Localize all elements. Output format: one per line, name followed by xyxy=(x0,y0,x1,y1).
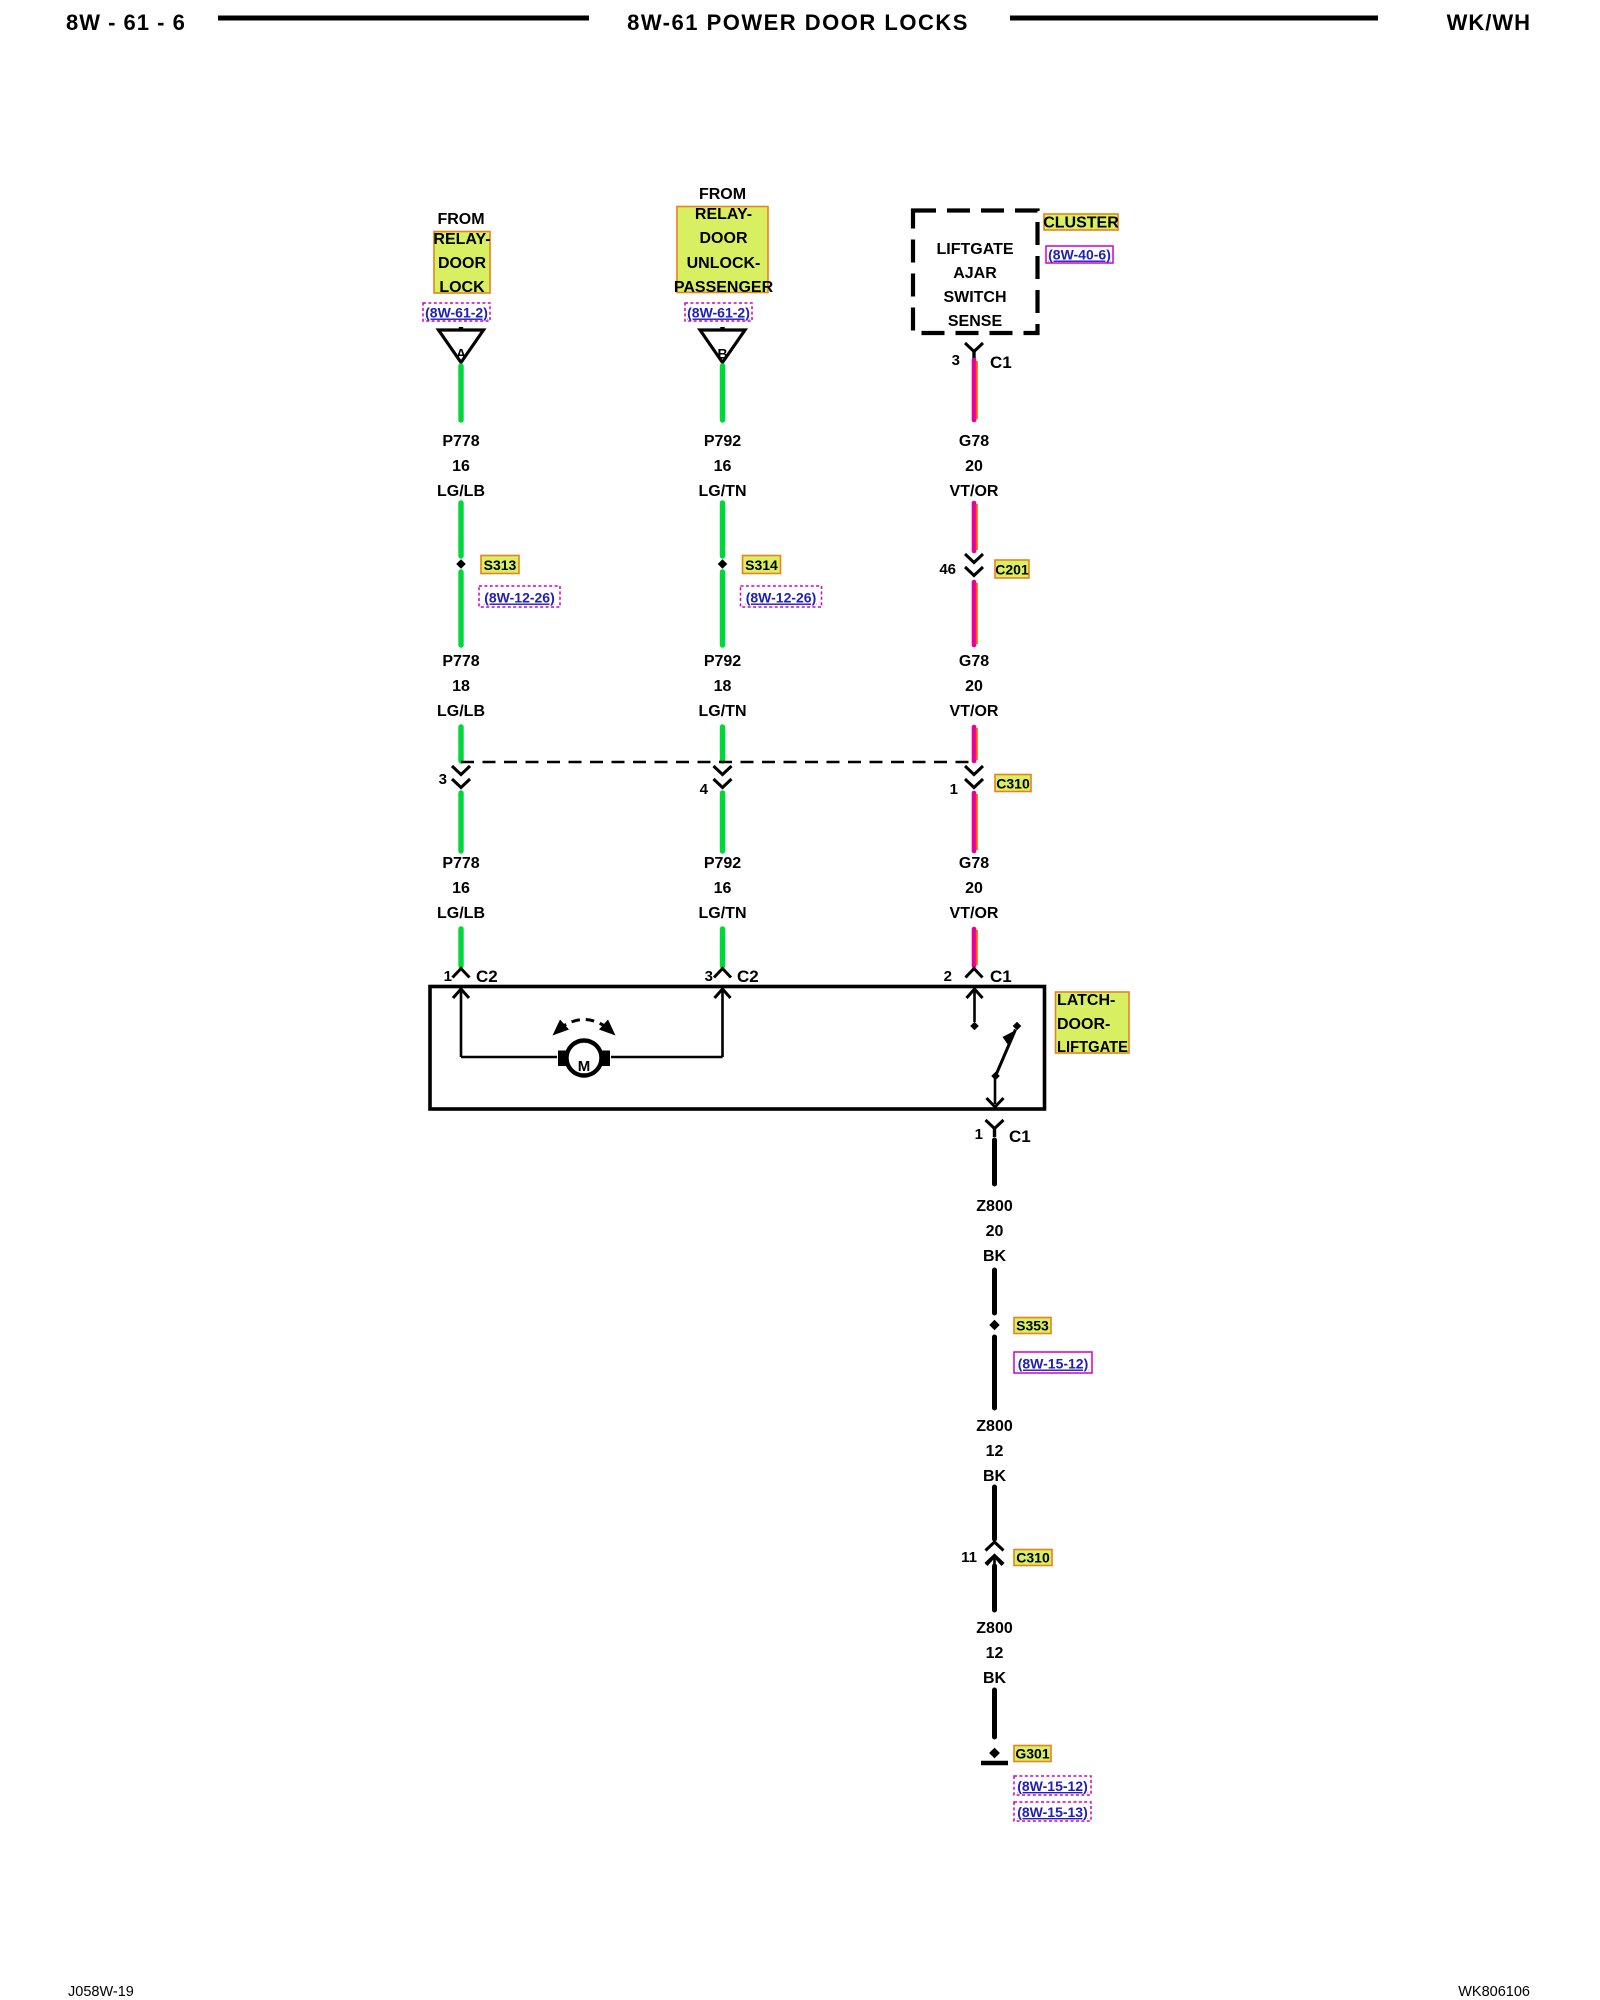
wire Z800 segment 6 (BK) xyxy=(992,1690,997,1737)
wire P778 segment 6 (LG) xyxy=(458,929,463,966)
wire G78 segment 5 (VT/OR) xyxy=(972,793,977,851)
svg-text:G78: G78 xyxy=(959,653,989,670)
svg-text:1: 1 xyxy=(444,968,452,985)
svg-text:C1: C1 xyxy=(990,353,1012,372)
svg-text:18: 18 xyxy=(452,678,470,695)
svg-text:18: 18 xyxy=(714,678,732,695)
wire P792 segment 5 (LG) xyxy=(720,793,725,851)
page link (8W-61-2) col2 xyxy=(685,303,752,321)
svg-text:SWITCH: SWITCH xyxy=(943,289,1006,306)
header rule left xyxy=(218,16,589,21)
svg-text:WK806106: WK806106 xyxy=(1458,1984,1530,2000)
svg-text:DOOR: DOOR xyxy=(700,230,748,247)
ground G301 xyxy=(989,1748,1000,1759)
connector pin 2 C1 (latch) xyxy=(966,969,983,978)
svg-text:C310: C310 xyxy=(1016,1550,1050,1566)
svg-text:46: 46 xyxy=(939,561,956,578)
wire P778 segment 3 (LG) xyxy=(458,572,463,645)
svg-text:S353: S353 xyxy=(1016,1318,1049,1334)
svg-text:LATCH-: LATCH- xyxy=(1057,992,1115,1009)
svg-text:DOOR: DOOR xyxy=(438,255,486,272)
connector pin 3 C2 (latch) xyxy=(714,969,731,978)
svg-text:RELAY-: RELAY- xyxy=(433,231,490,248)
svg-text:G78: G78 xyxy=(959,433,989,450)
svg-text:LIFTGATE: LIFTGATE xyxy=(1057,1039,1128,1056)
svg-text:LG/TN: LG/TN xyxy=(699,483,747,500)
page link (8W-12-26) col1 xyxy=(479,586,560,607)
wire P778 segment 1 (LG) xyxy=(458,366,463,420)
wire P792 segment 3 (LG) xyxy=(720,572,725,645)
in-line connector C201 pin 46 xyxy=(965,554,983,563)
svg-text:Z800: Z800 xyxy=(976,1620,1013,1637)
switch contact upper-right xyxy=(1013,1022,1022,1031)
wire Z800 segment 1 (BK) xyxy=(992,1140,997,1184)
svg-text:1: 1 xyxy=(975,1126,983,1143)
svg-text:LIFTGATE: LIFTGATE xyxy=(936,241,1013,258)
wire P778 segment 5 (LG) xyxy=(458,793,463,851)
svg-text:WK/WH: WK/WH xyxy=(1447,10,1531,35)
svg-text:G78: G78 xyxy=(959,855,989,872)
header rule right xyxy=(1010,16,1378,21)
wire Z800 segment 3 (BK) xyxy=(992,1337,997,1408)
wire G78 segment 3 (VT/OR) xyxy=(972,582,977,645)
internal lead switch to pin1 C1 xyxy=(994,1076,997,1104)
svg-text:LG/TN: LG/TN xyxy=(699,905,747,922)
svg-text:(8W-15-12): (8W-15-12) xyxy=(1018,1356,1089,1372)
svg-text:12: 12 xyxy=(986,1645,1004,1662)
svg-text:16: 16 xyxy=(452,458,470,475)
svg-text:S314: S314 xyxy=(745,557,778,573)
svg-text:16: 16 xyxy=(714,880,732,897)
svg-text:16: 16 xyxy=(452,880,470,897)
switch contact upper-left xyxy=(970,1022,979,1031)
switch pivot contact xyxy=(991,1072,1000,1081)
splice S353 xyxy=(989,1320,999,1330)
svg-text:(8W-15-13): (8W-15-13) xyxy=(1017,1804,1088,1820)
connector pin 1 C2 (latch) xyxy=(453,969,470,978)
svg-text:(8W-61-2): (8W-61-2) xyxy=(687,305,750,321)
svg-text:LG/TN: LG/TN xyxy=(699,703,747,720)
svg-text:8W - 61 - 6: 8W - 61 - 6 xyxy=(66,10,186,35)
wire G78 segment 2 (VT/OR) xyxy=(972,503,977,551)
wire G78 segment 4 (VT/OR) xyxy=(972,727,977,761)
svg-text:BK: BK xyxy=(983,1248,1007,1265)
splice S314 xyxy=(718,559,728,569)
svg-text:20: 20 xyxy=(965,458,983,475)
off-page connector triangle A xyxy=(459,327,463,331)
svg-text:20: 20 xyxy=(965,678,983,695)
svg-text:(8W-61-2): (8W-61-2) xyxy=(425,305,488,321)
svg-text:BK: BK xyxy=(983,1670,1007,1687)
svg-text:LOCK: LOCK xyxy=(439,279,485,296)
svg-text:VT/OR: VT/OR xyxy=(950,905,999,922)
ajar switch blade xyxy=(996,1030,1016,1077)
svg-text:(8W-40-6): (8W-40-6) xyxy=(1048,247,1111,263)
svg-text:(8W-12-26): (8W-12-26) xyxy=(484,590,555,606)
svg-text:AJAR: AJAR xyxy=(953,265,997,282)
svg-text:C201: C201 xyxy=(995,562,1029,578)
splice S313 xyxy=(456,559,466,569)
svg-text:A: A xyxy=(456,346,466,362)
svg-text:FROM: FROM xyxy=(699,186,746,203)
svg-text:1: 1 xyxy=(950,781,958,798)
svg-text:C1: C1 xyxy=(1009,1127,1031,1146)
svg-text:C2: C2 xyxy=(476,967,498,986)
svg-text:P792: P792 xyxy=(704,653,741,670)
svg-text:LG/LB: LG/LB xyxy=(437,483,485,500)
svg-text:FROM: FROM xyxy=(437,211,484,228)
svg-text:8W-61 POWER DOOR LOCKS: 8W-61 POWER DOOR LOCKS xyxy=(627,10,969,35)
motor rotation arrows xyxy=(559,1020,609,1030)
page link (8W-40-6) xyxy=(1046,246,1113,263)
svg-text:P778: P778 xyxy=(442,653,479,670)
wire P792 segment 1 (LG) xyxy=(720,366,725,420)
svg-text:UNLOCK-: UNLOCK- xyxy=(687,255,761,272)
svg-text:Z800: Z800 xyxy=(976,1418,1013,1435)
svg-text:3: 3 xyxy=(952,352,960,369)
page link (8W-61-2) col1 xyxy=(423,303,490,321)
page link (8W-15-13) at G301 xyxy=(1014,1802,1091,1821)
svg-text:C2: C2 xyxy=(737,967,759,986)
svg-text:LG/LB: LG/LB xyxy=(437,703,485,720)
svg-text:M: M xyxy=(578,1058,591,1075)
svg-text:RELAY-: RELAY- xyxy=(695,206,752,223)
wire Z800 segment 4 (BK) xyxy=(992,1487,997,1539)
C310 halves col1 pin 3 xyxy=(452,766,470,775)
svg-text:J058W-19: J058W-19 xyxy=(68,1984,134,2000)
svg-text:2: 2 xyxy=(944,968,952,985)
svg-text:C310: C310 xyxy=(996,776,1030,792)
svg-text:12: 12 xyxy=(986,1443,1004,1460)
svg-text:(8W-15-12): (8W-15-12) xyxy=(1017,1778,1088,1794)
svg-text:P778: P778 xyxy=(442,855,479,872)
wire P792 segment 6 (LG) xyxy=(720,929,725,966)
svg-text:3: 3 xyxy=(439,771,447,788)
internal lead pin3 to motor xyxy=(721,989,724,1057)
svg-text:P792: P792 xyxy=(704,855,741,872)
svg-text:20: 20 xyxy=(986,1223,1004,1240)
svg-text:4: 4 xyxy=(700,781,709,798)
svg-text:Z800: Z800 xyxy=(976,1198,1013,1215)
component box LATCH-DOOR-LIFTGATE xyxy=(430,987,1045,1110)
in-line connector C310 pin 11 (arrow up) xyxy=(986,1542,1004,1551)
svg-text:DOOR-: DOOR- xyxy=(1057,1016,1110,1033)
component name label CLUSTER xyxy=(1044,214,1118,230)
wire P778 segment 4 (LG) xyxy=(458,727,463,761)
in-line connector C310 (dashed gang line) xyxy=(461,761,974,764)
svg-text:16: 16 xyxy=(714,458,732,475)
svg-text:P778: P778 xyxy=(442,433,479,450)
svg-text:VT/OR: VT/OR xyxy=(950,703,999,720)
wire P778 segment 2 (LG) xyxy=(458,503,463,556)
wire G78 segment 6 (VT/OR) xyxy=(972,929,977,966)
connector fork pin 1 C1 (bottom) xyxy=(986,1120,1004,1129)
svg-text:C1: C1 xyxy=(990,967,1012,986)
svg-text:VT/OR: VT/OR xyxy=(950,483,999,500)
internal lead pin1 to motor xyxy=(460,989,463,1057)
component name label LATCH-DOOR-LIFTGATE xyxy=(1056,992,1130,1053)
wire P792 segment 4 (LG) xyxy=(720,727,725,761)
svg-text:S313: S313 xyxy=(484,557,517,573)
svg-text:LG/LB: LG/LB xyxy=(437,905,485,922)
connector name label C310 xyxy=(995,775,1031,792)
svg-text:CLUSTER: CLUSTER xyxy=(1043,215,1119,232)
svg-text:PASSENGER: PASSENGER xyxy=(674,279,774,296)
wire Z800 segment 5 (BK) xyxy=(992,1566,997,1610)
C310 halves col3 pin 1 xyxy=(965,766,983,775)
connector fork pin 3 C1 xyxy=(965,343,983,352)
off-page connector triangle B xyxy=(720,327,724,331)
page link (8W-12-26) col2 xyxy=(741,586,822,607)
wire P792 segment 2 (LG) xyxy=(720,503,725,556)
svg-text:BK: BK xyxy=(983,1468,1007,1485)
internal lead pin2 to switch contact xyxy=(973,989,976,1022)
motor M xyxy=(558,1051,568,1067)
svg-text:B: B xyxy=(717,346,727,362)
svg-text:P792: P792 xyxy=(704,433,741,450)
svg-text:SENSE: SENSE xyxy=(948,313,1003,330)
svg-text:3: 3 xyxy=(705,968,713,985)
internal wire motor loop xyxy=(461,1056,557,1059)
page link (8W-15-12) at G301 xyxy=(1014,1776,1091,1795)
svg-text:20: 20 xyxy=(965,880,983,897)
svg-text:11: 11 xyxy=(961,1549,977,1566)
svg-text:G301: G301 xyxy=(1015,1746,1049,1762)
page link (8W-15-12) at S353 xyxy=(1014,1352,1092,1373)
wire G78 segment 1 (VT/OR) xyxy=(972,360,977,420)
wire Z800 segment 2 (BK) xyxy=(992,1270,997,1313)
C310 halves col2 pin 4 xyxy=(714,766,732,775)
component box CLUSTER (dashed) xyxy=(913,211,1038,334)
svg-text:(8W-12-26): (8W-12-26) xyxy=(746,590,817,606)
